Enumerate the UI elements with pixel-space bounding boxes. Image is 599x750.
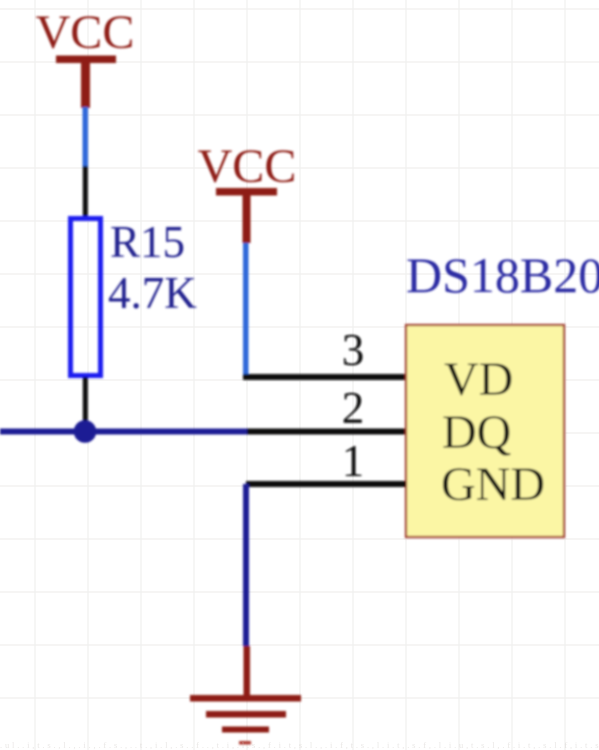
bottom noise band [0,740,599,750]
svg-text:4.7K: 4.7K [108,268,197,318]
wire [246,481,406,487]
svg-text:VCC: VCC [36,6,135,59]
svg-text:R15: R15 [110,217,185,267]
value 4.7K [108,268,197,318]
svg-text:3: 3 [342,325,365,375]
svg-text:DS18B20: DS18B20 [406,247,599,303]
wire [247,429,406,435]
pin name DQ [442,406,511,459]
svg-text:DQ: DQ [442,406,511,459]
wire [83,107,89,167]
resistor R1 [71,219,101,376]
svg-text:1: 1 [342,436,365,486]
power symbol VCC [36,6,135,108]
wire [83,377,88,431]
svg-text:GND: GND [441,458,545,511]
svg-text:VD: VD [444,353,513,406]
wire [243,243,249,377]
svg-text:VCC: VCC [198,140,297,193]
wire [244,646,251,696]
power symbol VCC [198,140,297,243]
junction [74,420,97,443]
pin number 3 [342,325,365,375]
pin name GND [441,458,545,511]
wire [243,374,406,380]
svg-text:2: 2 [342,383,365,433]
wire [243,484,249,646]
label R15 [110,217,185,267]
svg-text:.ul..i,t.s.,l.,.i.,.f.s.,..t.,: .ul..i,t.s.,l.,.i.,.f.s.,..t.,i.l,.s..f.… [0,740,599,750]
wire [0,429,247,435]
pin number 1 [342,436,365,486]
IC U1 DS18B20 [406,325,564,537]
ground [190,695,301,733]
wire [83,166,88,217]
pin name VD [444,353,513,406]
pin number 2 [342,383,365,433]
label DS18B20 [406,247,599,303]
bottom artifact mark [239,741,251,745]
